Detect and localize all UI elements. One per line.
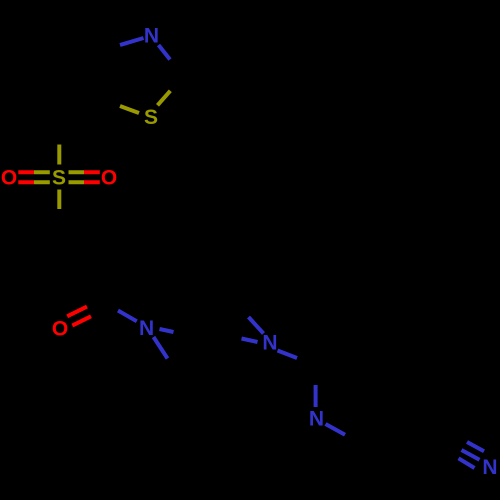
wire N(spiro)-C6 pyridine blue half (278, 351, 298, 359)
wire N(amide)-CH2 right blue half (160, 329, 174, 332)
wire amide C=O red half lower (72, 316, 91, 325)
svg-text:N: N (262, 332, 277, 355)
wire S=O left olive halves (34, 172, 50, 182)
wire N(pyridine)-C2 blue half (326, 424, 346, 435)
wire chain S-CH2b-CH2c-C(=O) dark (59, 227, 106, 304)
wire S=O right olive halves (69, 172, 85, 182)
wire S=O left red halves (18, 172, 34, 182)
wire chain C5-CH2a-S dark (59, 101, 105, 177)
wire C=O double dark halves (87, 297, 111, 316)
wire S(thiazoline)-C2 olive half (158, 91, 171, 106)
wire N(spiro)-CH2 upper-left blue half (249, 317, 264, 334)
svg-text:S: S (144, 106, 158, 129)
svg-text:O: O (1, 166, 17, 189)
wire nitrile triple bond line 3 (459, 458, 475, 468)
wire nitrile triple bond line 1 (467, 442, 484, 451)
wire N1(thiazoline)-C4 blue half (120, 38, 144, 45)
wire S(thiazoline)-C5 olive half (120, 106, 139, 113)
wire pyridine ring dark skeleton (316, 343, 403, 443)
svg-text:S: S (52, 167, 66, 190)
wire N(amide)-CH2 lower blue half (154, 337, 168, 359)
wire N(spiro)-CH2 left blue half (242, 339, 258, 343)
wire amide C=O red half upper (67, 307, 87, 317)
wire C(=O)-N amide dark (106, 304, 147, 328)
wire spiroN-pyridine C6 dark (270, 343, 315, 368)
wire S=O right red halves (84, 172, 100, 182)
wire S(sulfonyl)-CH2b olive half (57, 190, 61, 210)
wire S(sulfonyl)-CH2a olive half (57, 145, 61, 165)
svg-text:N: N (144, 25, 159, 48)
svg-text:N: N (309, 408, 324, 431)
wire bicyclic amine dark skeleton (147, 305, 271, 369)
wire N1(thiazoline)-C2 blue half (159, 45, 171, 60)
wire nitrile triple bond line 2 (462, 450, 480, 460)
wire thiazoline ring C-C/C-X dark skeleton (104, 36, 181, 117)
svg-text:N: N (139, 317, 154, 340)
wire N(amide)-C(=O) blue half (118, 311, 137, 322)
wire C3-nitrile C dark (402, 418, 468, 452)
svg-text:O: O (101, 167, 117, 190)
svg-text:O: O (52, 318, 68, 341)
wire N(pyridine)-C6 blue half (314, 385, 318, 407)
svg-text:N: N (482, 456, 497, 479)
